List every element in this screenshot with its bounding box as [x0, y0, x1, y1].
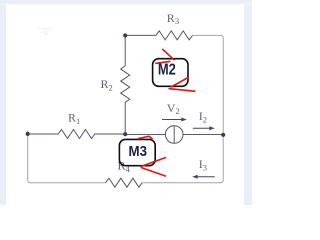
node A (top junction) [123, 33, 127, 37]
wire: bottom-right run, right rail up, top-right corner [142, 35, 223, 182]
red mark below M2 (diagonal) [171, 77, 190, 87]
node right junction [221, 133, 225, 137]
annotation box M3 [119, 139, 155, 165]
svg-text:M3: M3 [129, 144, 148, 160]
arrow I2 [193, 127, 212, 129]
faint smudge artifact [37, 28, 52, 30]
red mark below M2 (horizontal) [169, 89, 196, 92]
source U1 (circle with vertical bar) [165, 126, 183, 144]
page background [0, 0, 252, 208]
resistor R4 [106, 178, 143, 187]
resistor R1 [28, 130, 126, 139]
arrow I3 [195, 176, 215, 178]
red mark above M2 (cross stroke) [155, 61, 170, 63]
node left junction [26, 132, 30, 136]
wire: source row left segment [125, 134, 165, 136]
arrow V2 [162, 119, 184, 121]
resistor R2 [121, 36, 130, 135]
red mark above M2 (diagonal) [162, 49, 174, 60]
node B (center junction) [123, 132, 127, 136]
red mark below M3 (lower stroke) [141, 167, 166, 176]
red mark above M3 (caret) [138, 136, 153, 139]
annotation box M2 [153, 59, 188, 87]
wire: left rail down and bottom-left run [28, 134, 106, 183]
svg-text:M2: M2 [158, 61, 176, 78]
wire: left rail stub above node [27, 131, 29, 134]
red mark below M3 (upper stroke) [140, 157, 166, 166]
resistor R3 [125, 31, 192, 40]
wire: source row right segment [183, 134, 223, 136]
